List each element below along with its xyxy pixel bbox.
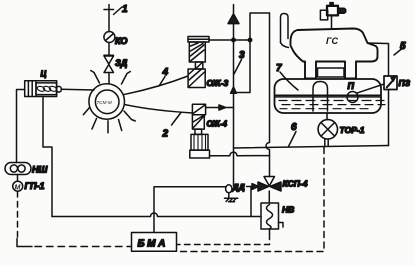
pipe 2 (fan to OZh-4) xyxy=(125,105,193,114)
valve TOR-1 xyxy=(318,113,365,146)
shutoff valve ZD xyxy=(104,55,128,72)
engine mid rect xyxy=(318,68,345,77)
svg-text:ГС: ГС xyxy=(326,36,339,46)
dashed bus left xyxy=(17,192,132,247)
dashed control line TOR-1 to BMA xyxy=(177,148,324,252)
wire cylinder to fan xyxy=(61,88,94,91)
line 6 horizontal xyxy=(234,146,389,149)
wire cylinder bottom drop to heater line xyxy=(43,97,52,217)
pipe loop over engine left xyxy=(237,13,270,93)
vertical pipe to valve KSP-4 (hop over line 6) xyxy=(266,13,270,177)
return line from OZh-4 bottom (hop over vent line) xyxy=(210,152,270,156)
label 4 xyxy=(159,67,169,86)
gear pump NSh xyxy=(5,163,47,175)
label 6 xyxy=(289,122,298,147)
svg-text:3: 3 xyxy=(239,50,245,61)
svg-text:4: 4 xyxy=(162,67,169,78)
wire OZh-4 arrow to vent line xyxy=(206,105,234,110)
svg-text:БМА: БМА xyxy=(138,239,168,250)
cooler OZh-4 xyxy=(190,104,228,158)
pipe 4 (fan to OZh-3) xyxy=(124,76,188,95)
wire cylinder left to pump NSh xyxy=(17,90,25,163)
cylinder C xyxy=(25,70,62,97)
wire DD to KSP-4 with arrow xyxy=(247,184,259,190)
wire vent line xyxy=(104,5,114,84)
cooler OZh-3 xyxy=(188,37,229,89)
label 2 xyxy=(162,113,182,140)
svg-text:ТОР-1: ТОР-1 xyxy=(340,125,365,135)
valve KSP-4 xyxy=(258,177,308,192)
pickup tube xyxy=(313,82,328,112)
wire engine right to line 5 xyxy=(368,43,389,146)
check valve KO xyxy=(104,32,128,47)
liquid surface and hatch xyxy=(276,95,386,109)
heater NV xyxy=(261,191,294,229)
motor GP-1 xyxy=(13,175,45,192)
air cleaner on engine top xyxy=(320,3,345,30)
svg-text:ОЖ-3: ОЖ-3 xyxy=(207,78,229,88)
svg-text:7: 7 xyxy=(276,63,282,74)
ground under DD xyxy=(225,193,238,202)
vent vertical pipe 3 with up arrow xyxy=(228,5,239,187)
svg-text:П: П xyxy=(348,81,355,91)
svg-text:ТСМ-М: ТСМ-М xyxy=(97,100,112,105)
label 1 xyxy=(114,4,129,15)
branch from KSP-4 left down to NV xyxy=(250,187,252,217)
svg-text:ГП-1: ГП-1 xyxy=(25,181,45,191)
pump/fan TCM-M xyxy=(83,71,135,133)
svg-text:ЗД: ЗД xyxy=(115,58,128,68)
oil tank xyxy=(275,79,382,113)
intake duct xyxy=(281,14,289,48)
svg-text:ПЗ: ПЗ xyxy=(399,78,411,88)
sensor PZ xyxy=(384,76,411,90)
label 7 xyxy=(276,63,298,90)
svg-text:ДД: ДД xyxy=(232,182,245,192)
svg-text:2: 2 xyxy=(162,129,169,140)
engine GS body xyxy=(291,29,378,79)
wire OZh-3 top (steam line) xyxy=(209,38,252,41)
svg-text:5: 5 xyxy=(400,41,406,52)
svg-text:Ц: Ц xyxy=(41,70,47,79)
control unit BMA xyxy=(132,233,177,252)
wire BMA to DD xyxy=(154,187,226,233)
wire long horizontal to NV with hop over BMA wire xyxy=(52,213,261,216)
svg-text:КО: КО xyxy=(115,36,127,46)
svg-text:НШ: НШ xyxy=(32,165,47,175)
pressure sensor DD xyxy=(226,182,245,193)
svg-text:КСП-4: КСП-4 xyxy=(283,179,308,189)
svg-text:М: М xyxy=(15,185,21,192)
label 3 xyxy=(234,50,245,74)
svg-text:ОЖ-4: ОЖ-4 xyxy=(207,120,228,129)
label 5 xyxy=(394,41,406,55)
svg-text:НВ: НВ xyxy=(282,205,294,215)
svg-text:6: 6 xyxy=(291,122,297,133)
float P xyxy=(347,81,384,103)
svg-text:1: 1 xyxy=(122,4,128,15)
dashed control line NV to BMA xyxy=(177,229,270,245)
